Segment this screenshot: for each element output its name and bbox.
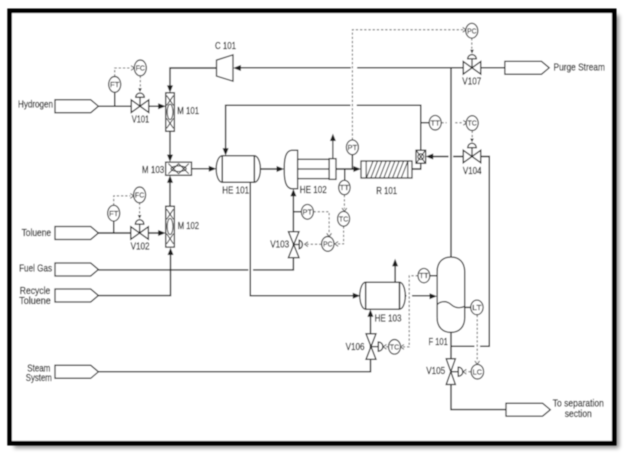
instrument PT (fuel) — [301, 204, 313, 219]
mixer M103 — [166, 162, 192, 175]
signal PC to V103 — [307, 243, 322, 245]
wire toluene feed to V102/M102 — [98, 232, 160, 234]
instrument tag texts — [109, 26, 482, 376]
arrow into HE103 — [353, 293, 361, 299]
svg-text:V105: V105 — [426, 366, 445, 377]
arrowhead into FC hydrogen — [131, 66, 134, 71]
wire V103 to HE102 burner — [292, 194, 294, 264]
arrow into F101 — [430, 293, 438, 299]
signal TC to V104 — [471, 131, 473, 138]
heat exchanger HE101 — [216, 156, 260, 182]
arrowhead into TC quench — [463, 120, 466, 125]
instrument FC (toluene) — [134, 187, 146, 203]
arrow into M101 top — [167, 85, 173, 92]
flash drum F101 — [437, 257, 465, 332]
valve V103 (vertical, side actuator) — [288, 232, 302, 258]
svg-text:LC: LC — [473, 367, 482, 376]
arrowhead into V106 actuator — [383, 344, 386, 349]
svg-text:M 102: M 102 — [178, 221, 199, 232]
arrow into HE101 top — [223, 148, 229, 155]
valve V102 — [131, 215, 149, 239]
svg-text:FT: FT — [109, 209, 119, 218]
svg-text:Fuel Gas: Fuel Gas — [19, 263, 52, 274]
svg-text:Hydrogen: Hydrogen — [18, 99, 53, 110]
svg-text:M 103: M 103 — [142, 165, 165, 176]
svg-text:R 101: R 101 — [376, 186, 397, 197]
wire PT tap fuel line — [293, 211, 301, 213]
signal PT to PC (fuel) — [314, 212, 330, 234]
furnace HE102 — [284, 150, 336, 189]
svg-text:Toluene: Toluene — [22, 228, 52, 239]
svg-text:TC: TC — [468, 119, 477, 128]
svg-text:PC: PC — [323, 239, 332, 248]
instrument TC (quench) — [466, 116, 478, 131]
wire R101 outlet to quench box — [412, 163, 421, 169]
quench mixing box — [416, 150, 426, 163]
svg-text:FC: FC — [136, 63, 145, 72]
arrowhead into V103 actuator — [305, 242, 308, 247]
stream flag Recycle Toluene — [55, 289, 98, 302]
instrument TT (F101) — [418, 268, 430, 282]
stream flag Steam System — [55, 365, 98, 378]
wire HE103 top vent — [394, 265, 396, 283]
wire HE101 bottom to HE103 — [250, 182, 355, 296]
wire recycle toluene to M102 bottom — [98, 252, 170, 296]
wire M101 bottom to M103 top — [169, 131, 171, 156]
svg-text:LT: LT — [472, 303, 482, 312]
arrow into M102 bottom — [168, 248, 174, 255]
wire FT tap hydrogen — [114, 93, 116, 106]
instrument LT — [471, 300, 483, 315]
instrument FT (hydrogen) — [109, 77, 121, 93]
liquid level wave in F101 — [437, 302, 464, 308]
arrowhead into TC top (furnace) — [342, 208, 347, 211]
instrument bubbles — [108, 23, 484, 379]
wire V107 to purge flag — [481, 67, 506, 69]
signal TT to TC (HE103 loop) — [403, 276, 418, 347]
instrument FC (hydrogen) — [134, 60, 146, 76]
instrument FT (toluene) — [108, 205, 120, 221]
svg-text:V104: V104 — [463, 166, 482, 177]
arrow into R101 — [353, 166, 361, 172]
arrowhead into PC right (cascade) — [335, 242, 338, 247]
svg-text:V103: V103 — [270, 240, 289, 251]
wire fuel gas to V103 — [98, 264, 293, 270]
stream flag Fuel Gas — [55, 263, 98, 276]
signal FT to FC (toluene) — [114, 196, 131, 206]
wire F101 overhead riser — [450, 68, 452, 257]
wire quench from bottoms junction up to V104 — [451, 157, 489, 347]
wire HE102 outlet to R101 — [336, 168, 356, 170]
wire FT tap toluene — [113, 221, 115, 233]
wire M102 top to M103 bottom — [169, 180, 171, 206]
svg-text:PT: PT — [303, 207, 313, 216]
wire TT tap on F101 shell — [430, 275, 437, 277]
instrument PC (purge) — [466, 23, 478, 38]
svg-text:TT: TT — [419, 271, 429, 280]
arrow into M101 — [158, 103, 166, 109]
svg-text:PC: PC — [467, 26, 476, 35]
reactor R101 — [361, 161, 412, 178]
arrow into M103 bottom — [167, 175, 173, 182]
wire C101 outlet to M101 top — [170, 68, 217, 87]
valve V105 (vertical, side actuator) — [446, 359, 463, 385]
signal PT to PC (pressure purge loop) — [352, 30, 463, 140]
svg-text:TT: TT — [431, 118, 441, 127]
arrowhead into LC top — [475, 361, 480, 364]
instrument TC (furnace) — [338, 211, 350, 226]
svg-text:HE 101: HE 101 — [222, 186, 249, 197]
svg-text:Toluene: Toluene — [19, 296, 51, 307]
svg-text:V102: V102 — [131, 242, 150, 253]
svg-text:TT: TT — [340, 183, 350, 192]
svg-text:F 101: F 101 — [429, 337, 449, 348]
arrow into M103 top — [167, 155, 173, 162]
signal TT to TC (quench) — [441, 122, 463, 124]
arrow into M102 — [158, 230, 166, 236]
arrowhead into V105 actuator — [463, 369, 466, 374]
signal PC to V107 — [471, 38, 473, 49]
wire hydrogen feed to V101/M101 — [98, 105, 160, 107]
wire quench box to HE101 top (effluent return) — [226, 105, 421, 150]
instrument TT (quench riser) — [429, 115, 441, 130]
svg-text:HE 102: HE 102 — [300, 185, 327, 196]
arrow into HE102 burner — [290, 189, 296, 196]
svg-text:C 101: C 101 — [215, 41, 236, 52]
svg-text:System: System — [26, 373, 52, 384]
arrow into quench box — [426, 154, 434, 160]
svg-text:PT: PT — [348, 143, 358, 152]
svg-text:TC: TC — [390, 342, 399, 351]
svg-text:Purge Stream: Purge Stream — [554, 63, 606, 74]
stream flag Toluene — [55, 227, 98, 240]
svg-text:FT: FT — [110, 80, 120, 89]
arrow into HE103 bottom — [367, 309, 373, 316]
svg-text:V107: V107 — [462, 77, 481, 88]
wire HE102 stack — [332, 140, 334, 159]
svg-text:TC: TC — [339, 214, 348, 223]
signal FT to FC (hydrogen) — [115, 68, 132, 77]
svg-text:section: section — [565, 409, 592, 420]
wire LT tap on F101 shell — [465, 306, 471, 308]
svg-text:M 101: M 101 — [177, 106, 199, 117]
wire HE103 outlet to F101 — [404, 295, 432, 297]
signal LC to V105 — [466, 371, 471, 373]
wire HE101 outlet to HE102 — [260, 168, 279, 170]
svg-text:V106: V106 — [346, 342, 365, 353]
arrow HE103 top vent — [392, 259, 398, 266]
signal FC to V102 — [139, 203, 141, 215]
wire M103 outlet to HE101 — [192, 168, 212, 170]
arrow into HE101 — [209, 166, 217, 172]
arrowhead into PC purge — [463, 27, 466, 32]
wire junction to V107 — [451, 67, 463, 69]
instrument PT (reactor) — [346, 140, 358, 155]
wire V105 to separation flag — [451, 385, 507, 410]
valve V101 — [131, 88, 149, 112]
dashed-line chevron arrowheads — [130, 27, 479, 374]
stream flag To separation section — [506, 403, 550, 416]
signal TT to TC (furnace) — [343, 195, 345, 209]
wire recycle gas to C101 inlet — [235, 67, 451, 69]
arrow into HE102 — [277, 166, 285, 172]
instrument TC (steam) — [389, 340, 401, 355]
arrowhead into TC HE103 — [401, 345, 404, 350]
mixer M101 — [166, 93, 175, 132]
wire V106 to HE103 bottom — [370, 314, 372, 362]
compressor C101 — [217, 55, 234, 81]
signal TC to V106 — [385, 346, 388, 348]
signal FC to V101 — [139, 76, 141, 88]
stream flag Hydrogen — [55, 100, 98, 113]
valve V106 (vertical, side actuator) — [366, 334, 383, 360]
heat exchanger HE103 — [360, 282, 406, 309]
arrow into C101 — [233, 65, 241, 71]
arrowhead into PC top (fuel) — [327, 233, 332, 236]
wire V104 to quench box (gap at riser crossing) — [429, 156, 463, 158]
dashed instrument signal lines — [114, 30, 478, 372]
signal TC to PC (furnace cascade) — [337, 226, 343, 244]
stream flag Purge Stream — [505, 61, 549, 74]
wire TT tap on quench riser — [421, 122, 430, 124]
wire TT tap reactor inlet — [344, 169, 346, 180]
arrowheads — [158, 65, 437, 317]
mixer M102 — [166, 206, 175, 247]
svg-text:HE 103: HE 103 — [375, 313, 402, 324]
valve V107 — [463, 50, 481, 74]
instrument TT (after HE102) — [339, 180, 350, 194]
instrument PC (furnace) — [322, 237, 334, 252]
wire F101 bottoms to V105 — [450, 332, 452, 359]
svg-text:V101: V101 — [132, 114, 150, 125]
control valves — [131, 50, 481, 385]
instrument LC — [471, 364, 483, 379]
svg-text:FC: FC — [135, 190, 144, 199]
wire PT tap reactor inlet — [351, 155, 353, 169]
valve V104 — [463, 139, 481, 163]
arrowhead into FC toluene — [130, 194, 133, 199]
arrow HE102 stack vent — [330, 134, 336, 141]
equipment and stream labels — [18, 41, 605, 420]
wire steam system to V106 — [98, 362, 370, 372]
signal LT to LC — [476, 315, 478, 362]
